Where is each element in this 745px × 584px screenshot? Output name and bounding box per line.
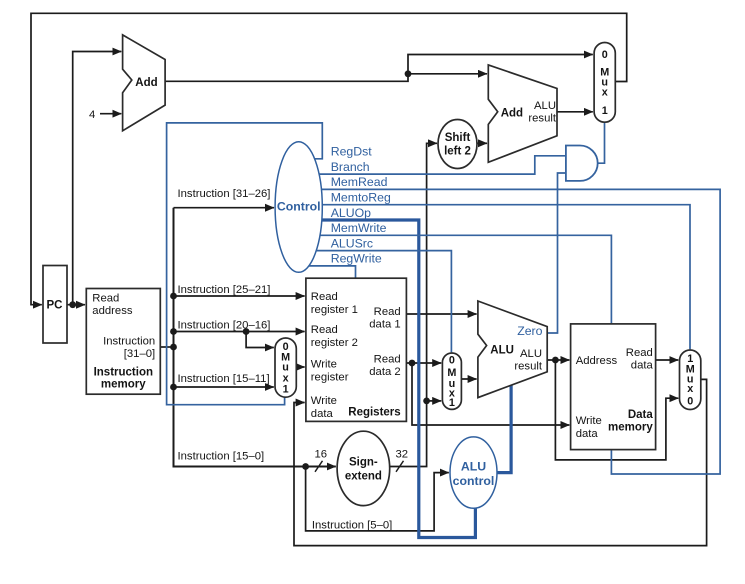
node: sign extend line junction [423,398,430,405]
svg-text:16: 16 [315,449,328,461]
svg-text:Add: Add [135,77,157,89]
wire: Branch control to AND gate [300,156,566,174]
wire: AND gate output to top mux select [598,123,605,163]
svg-text:1: 1 [449,397,455,409]
svg-text:Add: Add [501,108,523,120]
wire: sign extend output up to shift left 2 [390,143,437,466]
node: PC output junction [69,301,76,308]
svg-text:MemRead: MemRead [331,175,388,189]
mux MemtoReg (right) [680,350,701,410]
svg-text:ALU: ALU [490,345,514,357]
svg-text:u: u [282,361,289,373]
svg-text:PC: PC [47,300,63,312]
wire: constant 4 into Add [89,109,121,121]
wire: read data 2 branch to data memory write data [412,363,569,425]
register PC [43,266,67,344]
svg-text:data: data [576,428,599,440]
svg-text:Registers: Registers [348,407,400,419]
wire: Add-result output to top mux input 1 [557,111,593,113]
svg-text:1: 1 [283,384,289,396]
svg-text:Instruction [20–16]: Instruction [20–16] [178,320,271,332]
svg-text:Read: Read [92,293,119,305]
svg-text:ALUSrc: ALUSrc [331,236,373,250]
wire: Add output PC+4 to top mux input 0 [165,55,593,82]
svg-text:result: result [514,361,542,373]
wire: MemRead control to data memory [300,175,720,474]
svg-text:memory: memory [608,422,653,434]
svg-text:x: x [602,87,608,99]
wire: RegWrite control to registers [300,252,382,278]
svg-text:[31–0]: [31–0] [124,348,155,360]
adder Add ALU result (branch target) [488,65,557,162]
registers file [306,278,407,421]
svg-text:RegDst: RegDst [331,145,373,159]
svg-text:Read: Read [311,324,338,336]
svg-text:Instruction [15–0]: Instruction [15–0] [178,451,265,463]
wire: instruction memory output to bus [160,346,173,348]
svg-text:control: control [453,474,495,488]
wire: instruction [20-16] to read register 2 [174,320,305,332]
node: bus junction for instruction [20-16] [170,328,177,335]
svg-text:ALU: ALU [461,460,486,474]
svg-text:Write: Write [311,395,337,407]
oval ALU control [450,437,497,508]
wire: top mux output feedback loop to PC [31,13,627,304]
wire: ALUOp control to ALU control unit [300,206,475,538]
wire: ALU control output to ALU [497,385,511,472]
wire: ALU result around data memory to right mux input 0 [555,360,678,460]
svg-text:Shift: Shift [445,132,471,144]
wire: ALUSrc mux output to ALU bottom input [461,378,477,380]
svg-text:Address: Address [576,355,618,367]
oval Shift left 2 [438,120,477,169]
svg-text:data: data [311,408,334,420]
svg-text:Data: Data [628,409,654,421]
svg-text:Read: Read [374,306,401,318]
svg-text:Instruction [5–0]: Instruction [5–0] [312,520,392,532]
node: bus junction for instruction [25-21] [170,293,177,300]
node: read data 2 junction [409,360,416,367]
wire: 16-bit slash on instruction [15-0] [315,449,328,472]
wire: shift left 2 output to Add-result bottom input [477,142,487,144]
svg-text:0: 0 [449,355,455,367]
ALU main [478,301,547,398]
gate AND (branch taken) [566,146,598,181]
svg-text:Write: Write [576,415,602,427]
wire: ALUSrc control to ALUSrc mux select [300,236,451,352]
wire: instruction [25-21] to read register 1 [174,284,305,296]
svg-text:memory: memory [101,378,146,390]
wire: data memory read data to right mux input 1 [656,359,679,361]
node: ALU result junction [552,357,559,364]
wire: instruction bus vertical and instruction [15-0] to sign extend [174,208,336,467]
svg-text:ALU: ALU [534,100,556,112]
wire: MemtoReg control to right mux select [300,191,690,350]
svg-text:Sign-: Sign- [349,457,378,469]
svg-text:0: 0 [602,49,608,61]
svg-text:extend: extend [345,471,382,483]
wire: read data 2 to ALUSrc mux input 0 [406,362,441,364]
wire: PC to top Add input [73,52,122,305]
svg-text:MemtoReg: MemtoReg [331,191,391,205]
wire: RegDst mux output to write register [296,366,304,368]
adder Add (PC+4) [123,35,166,131]
svg-text:RegWrite: RegWrite [331,252,382,266]
svg-text:register: register [311,372,349,384]
wire: RegDst control to RegDst mux select [167,123,373,405]
node: junction on instruction [20-16] line [243,328,250,335]
svg-text:Branch: Branch [331,160,370,174]
svg-text:Instruction: Instruction [94,366,153,378]
wire: instruction [31-26] to control [174,188,275,208]
oval sign extend [337,431,390,505]
wire: branch to ALUSrc mux input 1 [427,400,442,402]
svg-text:Instruction [15–11]: Instruction [15–11] [178,373,270,385]
data memory [571,324,656,450]
wire: 32-bit slash on sign extend output [396,449,409,472]
wire: Zero output to AND gate [547,173,566,333]
node: junction instruction [15-0] to [5-0] [302,463,309,470]
svg-text:left 2: left 2 [444,146,471,158]
svg-text:MemWrite: MemWrite [331,221,387,235]
mux top (branch PC select) [594,43,615,123]
svg-text:0: 0 [687,396,693,408]
node: bus junction at instruction memory output [170,344,177,351]
mux ALUSrc [442,353,461,409]
node: PC+4 junction [405,70,412,77]
wire: right mux output back to registers write data [294,379,707,545]
svg-text:Read: Read [374,354,401,366]
svg-text:Zero: Zero [517,324,542,338]
svg-text:Read: Read [626,347,653,359]
svg-text:ALUOp: ALUOp [331,206,371,220]
wire: instruction [5-0] to ALU control [306,467,449,532]
svg-text:4: 4 [89,109,95,121]
wire: ALU result to data memory address [547,359,569,361]
node: bus junction for instruction [15-11] [170,384,177,391]
svg-text:result: result [528,113,556,125]
svg-text:Instruction [25–21]: Instruction [25–21] [178,284,271,296]
svg-text:data: data [631,360,654,372]
svg-text:Write: Write [311,359,337,371]
svg-text:32: 32 [396,449,409,461]
svg-text:Instruction: Instruction [103,336,155,348]
wire: instruction [20-16] branch down to RegDst mux input 0 [246,332,274,348]
svg-text:data 2: data 2 [369,366,400,378]
mux RegDst (write register select) [275,338,296,397]
svg-text:ALU: ALU [520,348,542,360]
svg-text:Read: Read [311,291,338,303]
svg-text:register 1: register 1 [311,304,358,316]
wire: MemWrite control to data memory [300,221,611,323]
wire: instruction [15-11] to RegDst mux input 1 [174,373,274,387]
svg-text:x: x [687,383,693,395]
control unit oval [275,142,322,273]
svg-text:address: address [92,305,133,317]
svg-text:Control: Control [277,200,321,214]
wire: PC+4 to Add-result top input [408,73,487,75]
svg-text:1: 1 [602,105,608,117]
wire: read data 1 to ALU top input [406,313,476,315]
instruction memory [86,289,160,395]
wire: PC output to instruction memory read address [67,304,85,306]
svg-text:data 1: data 1 [369,319,400,331]
svg-text:register 2: register 2 [311,337,358,349]
svg-text:Instruction [31–26]: Instruction [31–26] [178,188,271,200]
